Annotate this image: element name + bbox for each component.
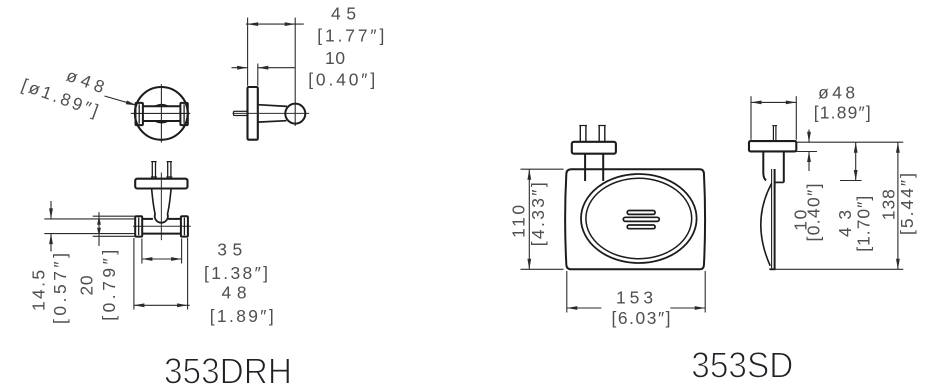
svg-text:ø48: ø48	[818, 83, 855, 103]
svg-text:[0.40″]: [0.40″]	[804, 184, 824, 242]
svg-text:[1.89″]: [1.89″]	[210, 306, 274, 326]
svg-text:[1.70″]: [1.70″]	[854, 196, 874, 252]
svg-text:[0.57″]: [0.57″]	[50, 253, 70, 324]
svg-text:353DRH: 353DRH	[164, 350, 292, 390]
svg-text:[5.44″]: [5.44″]	[897, 173, 917, 235]
svg-text:[1.89″]: [1.89″]	[814, 102, 871, 122]
svg-text:10: 10	[325, 48, 345, 68]
svg-text:[6.03″]: [6.03″]	[612, 308, 671, 328]
svg-text:14.5: 14.5	[29, 270, 49, 311]
svg-text:[1.77″]: [1.77″]	[317, 25, 384, 45]
svg-text:20: 20	[77, 276, 97, 296]
svg-text:[0.40″]: [0.40″]	[308, 70, 375, 90]
svg-text:138: 138	[878, 189, 898, 220]
svg-text:[1.38″]: [1.38″]	[204, 263, 268, 283]
svg-text:153: 153	[616, 288, 653, 308]
svg-text:110: 110	[509, 205, 529, 238]
svg-text:[0.79″]: [0.79″]	[99, 250, 119, 321]
svg-text:353SD: 353SD	[691, 345, 793, 386]
svg-text:[4.33″]: [4.33″]	[528, 182, 548, 246]
